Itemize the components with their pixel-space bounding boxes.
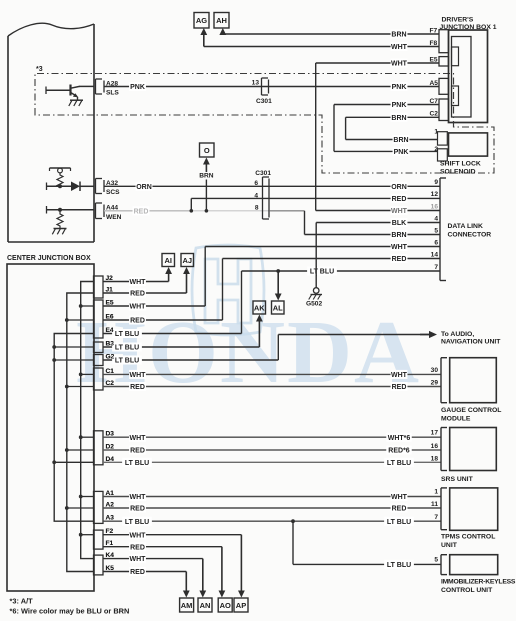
svg-text:RED: RED: [130, 318, 145, 325]
wire WHT : center box E5 to data link pin6: [205, 246, 440, 248]
wire RED : A44 WEN to C301 pin8 (faded): [104, 210, 191, 212]
wire WHT : E5 down to data link pin16: [316, 62, 439, 64]
svg-text:AP: AP: [236, 601, 246, 610]
svg-text:CENTER JUNCTION BOX: CENTER JUNCTION BOX: [7, 255, 91, 262]
svg-text:LT BLU: LT BLU: [125, 519, 149, 526]
dash-dot A/T option boundary (*3): [35, 74, 494, 174]
svg-text:IMMOBILIZER-KEYLESS: IMMOBILIZER-KEYLESS: [441, 579, 516, 586]
bus stub RED: [67, 507, 94, 509]
wire LT BLU : E4 up: [103, 333, 242, 335]
wire RED : D2 to SRS 16: [103, 449, 441, 451]
svg-text:LT BLU: LT BLU: [387, 519, 411, 526]
wire LT BLU : center box E4 to data link pin7: [242, 270, 441, 272]
ground (chassis) below resistor: [54, 228, 67, 230]
svg-text:WHT: WHT: [130, 435, 147, 442]
wire BRN branch down to data link pin5: [304, 211, 306, 235]
svg-text:RED: RED: [130, 544, 145, 551]
bus stub WHT: [81, 436, 94, 438]
svg-text:RED: RED: [392, 384, 407, 391]
svg-text:RED: RED: [134, 208, 149, 215]
pin E5/E6/E4: [94, 300, 104, 338]
wire PNK : C7 to shift lock pin2: [334, 104, 439, 106]
svg-text:NAVIGATION UNIT: NAVIGATION UNIT: [441, 339, 501, 346]
arrow into AP: [240, 534, 242, 536]
svg-text:4: 4: [254, 193, 258, 200]
svg-text:11: 11: [431, 501, 438, 508]
svg-text:AI: AI: [165, 256, 173, 265]
pin F7/F8: [439, 30, 449, 53]
svg-text:12: 12: [431, 191, 439, 198]
svg-text:LT BLU: LT BLU: [310, 269, 334, 276]
svg-text:WEN: WEN: [106, 214, 122, 221]
svg-text:AM: AM: [181, 601, 193, 610]
svg-text:LT BLU: LT BLU: [125, 460, 149, 467]
wire RED : J1 to AJ: [103, 292, 187, 294]
wire RED : K5 to AM: [103, 571, 186, 573]
pin 2: [438, 149, 448, 161]
svg-text:C301: C301: [256, 98, 272, 105]
svg-text:MODULE: MODULE: [441, 415, 471, 422]
svg-text:1: 1: [434, 489, 438, 496]
svg-text:1: 1: [434, 129, 438, 136]
junction box E5 stub: [452, 47, 459, 66]
svg-text:RED: RED: [130, 569, 145, 576]
junction box inner bus rect: [452, 37, 472, 118]
svg-text:C301: C301: [255, 170, 271, 177]
svg-text:K4: K4: [106, 552, 115, 559]
svg-text:BRN: BRN: [391, 32, 406, 39]
bus stub WHT: [81, 305, 94, 307]
wire WHT : J2 to AI: [103, 281, 169, 283]
svg-text:UNIT: UNIT: [441, 542, 458, 549]
svg-text:J2: J2: [106, 275, 114, 282]
svg-text:ORN: ORN: [136, 184, 152, 191]
svg-text:6: 6: [254, 180, 258, 187]
svg-text:2: 2: [434, 146, 438, 153]
svg-text:F2: F2: [106, 528, 114, 535]
wire BLK : data link pin4 to G502: [316, 222, 440, 224]
pin E5: [439, 57, 449, 66]
svg-text:AK: AK: [254, 303, 265, 312]
svg-text:CONNECTOR: CONNECTOR: [448, 231, 492, 238]
connector AM: [180, 598, 194, 612]
svg-text:A3: A3: [106, 515, 115, 522]
svg-text:PNK: PNK: [392, 102, 407, 109]
svg-text:RED: RED: [392, 196, 407, 203]
svg-text:RED: RED: [130, 448, 145, 455]
connector AI: [162, 254, 175, 267]
svg-text:AO: AO: [220, 601, 231, 610]
svg-text:DATA LINK: DATA LINK: [448, 223, 483, 230]
pin A1/A2/A3: [94, 491, 104, 523]
arrow into AL tap on E4 wire: [276, 269, 280, 273]
svg-text:RED: RED: [392, 256, 407, 263]
svg-text:30: 30: [431, 367, 439, 374]
svg-text:5: 5: [434, 227, 438, 234]
svg-text:RED: RED: [130, 384, 145, 391]
wire RED : E6 up: [103, 319, 223, 321]
svg-text:A1: A1: [106, 490, 115, 497]
svg-text:WHT: WHT: [391, 372, 408, 379]
svg-text:WHT*6: WHT*6: [388, 435, 411, 442]
svg-text:BRN: BRN: [199, 173, 214, 180]
svg-text:9: 9: [434, 179, 438, 186]
pin A32/SCS: [95, 179, 97, 194]
svg-text:E6: E6: [106, 314, 114, 321]
dash-dot through junction box: [453, 78, 455, 128]
svg-text:WHT: WHT: [391, 44, 408, 51]
diode D1: [47, 185, 72, 187]
arrow into AK from B3 wire: [258, 319, 260, 348]
svg-text:29: 29: [431, 380, 439, 387]
connector C301 pin 13: [261, 78, 263, 95]
connector AK: [253, 301, 266, 314]
svg-text:AG: AG: [196, 16, 207, 25]
svg-text:WHT: WHT: [130, 556, 147, 563]
bus stub LT BLU: [54, 461, 93, 463]
wire RED : to C301 pin4 to data link pin12: [191, 197, 440, 199]
pin D3/D2/D4: [94, 431, 104, 465]
LT BLU internal bus: [54, 334, 93, 522]
svg-text:16: 16: [431, 443, 439, 450]
bus stub WHT: [81, 373, 94, 375]
svg-text:SOLENOID: SOLENOID: [440, 169, 476, 176]
svg-text:AJ: AJ: [182, 256, 192, 265]
connector AN: [198, 598, 212, 612]
svg-text:K5: K5: [106, 565, 115, 572]
arrow into AN: [202, 558, 204, 560]
node: SCS line junction: [58, 184, 62, 188]
wire RED : F1 to AO: [103, 546, 222, 548]
connector AH: [214, 13, 229, 29]
ground (emitter, chassis): [70, 99, 83, 101]
svg-text:RED*6: RED*6: [388, 448, 410, 455]
transistor Q (shift lock solenoid driver): [46, 89, 70, 91]
svg-text:BRN: BRN: [391, 232, 406, 239]
wire WHT : F2 to AP: [103, 534, 241, 536]
svg-text:B3: B3: [106, 341, 115, 348]
WHT internal bus: [81, 282, 94, 559]
svg-text:To AUDIO,: To AUDIO,: [441, 331, 474, 338]
pin A28/SLS: [95, 79, 97, 94]
wire to audio/navigation: [278, 334, 429, 336]
resistor R (pull-up): [57, 173, 63, 187]
resistor R (WEN pull-down): [47, 209, 95, 211]
svg-text:TPMS CONTROL: TPMS CONTROL: [441, 534, 495, 541]
wire diode to A32: [80, 185, 94, 187]
connector AL: [272, 301, 285, 314]
arrow into AM: [185, 571, 187, 573]
bus stub RED: [67, 386, 94, 388]
svg-text:WHT: WHT: [130, 279, 147, 286]
svg-text:18: 18: [431, 456, 439, 463]
bus stub LT BLU: [54, 359, 93, 361]
wire LT BLU : tap to immobilizer 5: [291, 519, 295, 523]
connector AG: [194, 13, 209, 29]
arrow BRN into O: [205, 162, 207, 173]
svg-text:SRS UNIT: SRS UNIT: [441, 476, 474, 483]
wire WHT : K4 to AN: [103, 558, 203, 560]
svg-text:D2: D2: [106, 444, 115, 451]
wire BRN : AH to F7: [222, 32, 224, 34]
connector AO: [218, 598, 232, 612]
wire LT BLU : G2 to audio: [103, 359, 278, 361]
svg-text:7: 7: [434, 264, 438, 271]
Honda watermark logo: [192, 245, 264, 335]
pin C1/C2: [94, 368, 104, 390]
connector AJ: [181, 254, 194, 267]
power rail bar: [50, 167, 71, 169]
svg-text:PNK: PNK: [130, 84, 145, 91]
svg-text:D4: D4: [106, 456, 115, 463]
SRS UNIT: [440, 428, 442, 471]
svg-text:8: 8: [255, 205, 259, 212]
svg-text:LT BLU: LT BLU: [387, 562, 411, 569]
pin K4/K5: [94, 555, 104, 575]
bus stub RED: [67, 449, 94, 451]
wire collector to A28: [79, 85, 94, 87]
svg-text:RED: RED: [130, 506, 145, 513]
DATA LINK CONNECTOR: [439, 178, 441, 281]
SHIFT LOCK SOLENOID: [449, 133, 488, 156]
svg-text:*6: Wire color may be BLU or B: *6: Wire color may be BLU or BRN: [10, 607, 130, 616]
bus stub WHT: [81, 496, 94, 498]
pin C7/C2: [439, 99, 449, 121]
svg-text:C1: C1: [106, 368, 115, 375]
connector AP: [234, 598, 248, 612]
svg-text:16: 16: [431, 203, 439, 210]
svg-text:C7: C7: [430, 98, 439, 105]
svg-text:17: 17: [431, 430, 439, 437]
svg-text:O: O: [204, 146, 210, 155]
svg-text:LT BLU: LT BLU: [387, 460, 411, 467]
ground G502: [313, 288, 319, 294]
svg-text:WHT: WHT: [391, 208, 408, 215]
svg-text:PNK: PNK: [392, 84, 407, 91]
wire LT BLU : B3 to AK: [103, 346, 259, 348]
svg-text:A2: A2: [106, 502, 115, 509]
RED internal bus: [67, 293, 94, 572]
wire WHT : E5 up: [103, 305, 205, 307]
svg-text:GAUGE CONTROL: GAUGE CONTROL: [441, 407, 501, 414]
svg-text:F1: F1: [106, 540, 114, 547]
svg-text:CONTROL UNIT: CONTROL UNIT: [441, 587, 493, 594]
arrow into AJ from J1 wire: [186, 271, 188, 293]
svg-text:WHT: WHT: [130, 532, 147, 539]
wire WHT : C1 to gauge 30: [103, 373, 441, 375]
wire RED : center box E6 to data link pin14: [223, 258, 441, 260]
wire jog up to RED data-link feed: [190, 198, 192, 210]
bus stub WHT: [81, 534, 94, 536]
svg-text:BRN: BRN: [391, 115, 406, 122]
pin J2/J1: [94, 276, 104, 298]
pin A44/WEN: [95, 203, 97, 219]
bus stub RED: [67, 319, 94, 321]
svg-text:LT BLU: LT BLU: [115, 345, 139, 352]
connector O (option): [200, 143, 215, 157]
svg-text:WHT: WHT: [391, 494, 408, 501]
svg-text:AH: AH: [216, 16, 227, 25]
svg-text:LT BLU: LT BLU: [115, 331, 139, 338]
svg-text:G2: G2: [106, 354, 115, 361]
svg-text:AN: AN: [200, 601, 211, 610]
svg-text:SCS: SCS: [106, 189, 120, 196]
wire PNK : SLS A28 to C301 pin13 to junction box A5: [104, 86, 439, 88]
svg-text:13: 13: [252, 80, 260, 87]
svg-text:C2: C2: [106, 380, 115, 387]
svg-text:J1: J1: [106, 287, 114, 294]
wire WHT : AG to F8: [203, 32, 205, 47]
svg-text:4: 4: [434, 215, 438, 222]
svg-text:BLK: BLK: [392, 220, 406, 227]
wire RED : C2 to gauge 29: [103, 386, 441, 388]
pin 1: [438, 132, 448, 145]
svg-text:G502: G502: [306, 301, 322, 308]
bus stub LT BLU: [54, 346, 93, 348]
IMMOBILIZER-KEYLESS CONTROL UNIT: [440, 555, 442, 575]
svg-text:LT BLU: LT BLU: [115, 358, 139, 365]
pin F2/F1: [94, 530, 104, 549]
svg-text:E5: E5: [106, 300, 114, 307]
svg-text:DRIVER'S: DRIVER'S: [442, 17, 474, 24]
svg-text:WHT: WHT: [130, 494, 147, 501]
wire LT BLU : D4 to SRS 18: [103, 461, 441, 463]
svg-text:D3: D3: [106, 431, 115, 438]
left component box (torn top): [8, 23, 94, 36]
svg-text:RED: RED: [392, 506, 407, 513]
wire ORN : SCS A32 to C301 pin6 to data link pin9: [104, 185, 440, 187]
pin A5: [439, 78, 449, 94]
svg-text:WHT: WHT: [130, 372, 147, 379]
pin B3: [94, 342, 104, 353]
svg-text:F7: F7: [430, 27, 438, 34]
svg-text:WHT: WHT: [130, 304, 147, 311]
svg-text:E4: E4: [106, 327, 114, 334]
wire BRN : C2 to shift lock pin1: [346, 116, 439, 118]
svg-text:14: 14: [431, 251, 439, 258]
wire WHT : D3 to SRS 17: [103, 436, 441, 438]
svg-text:SLS: SLS: [106, 90, 119, 97]
arrow into AO: [221, 546, 223, 548]
Honda watermark text: [76, 303, 421, 402]
svg-text:*3: *3: [36, 66, 43, 73]
svg-text:BRN: BRN: [393, 137, 408, 144]
junction box A5 stub: [452, 86, 459, 106]
svg-text:*3: A/T: *3: A/T: [10, 597, 34, 606]
svg-text:5: 5: [434, 557, 438, 564]
svg-text:WHT: WHT: [391, 61, 408, 68]
svg-text:C2: C2: [430, 111, 439, 118]
pin G2: [94, 355, 104, 366]
svg-text:A5: A5: [430, 80, 439, 87]
svg-text:ORN: ORN: [391, 184, 407, 191]
svg-text:RED: RED: [130, 291, 145, 298]
wire WHT : A1 to TPMS 1: [103, 496, 441, 498]
svg-text:AL: AL: [273, 303, 283, 312]
svg-text:WHT: WHT: [391, 244, 408, 251]
svg-text:PNK: PNK: [394, 149, 409, 156]
TPMS CONTROL UNIT: [440, 488, 442, 530]
connector C301 pins 6/4/8: [262, 177, 264, 219]
svg-text:SHIFT LOCK: SHIFT LOCK: [440, 161, 481, 168]
wire RED : A2 to TPMS 11: [103, 507, 441, 509]
svg-text:6: 6: [434, 239, 438, 246]
arrow into AI from J2 wire: [168, 271, 170, 282]
svg-text:7: 7: [434, 514, 438, 521]
GAUGE CONTROL MODULE: [440, 358, 442, 403]
wire LT BLU : A3 to TPMS 7: [103, 520, 441, 522]
